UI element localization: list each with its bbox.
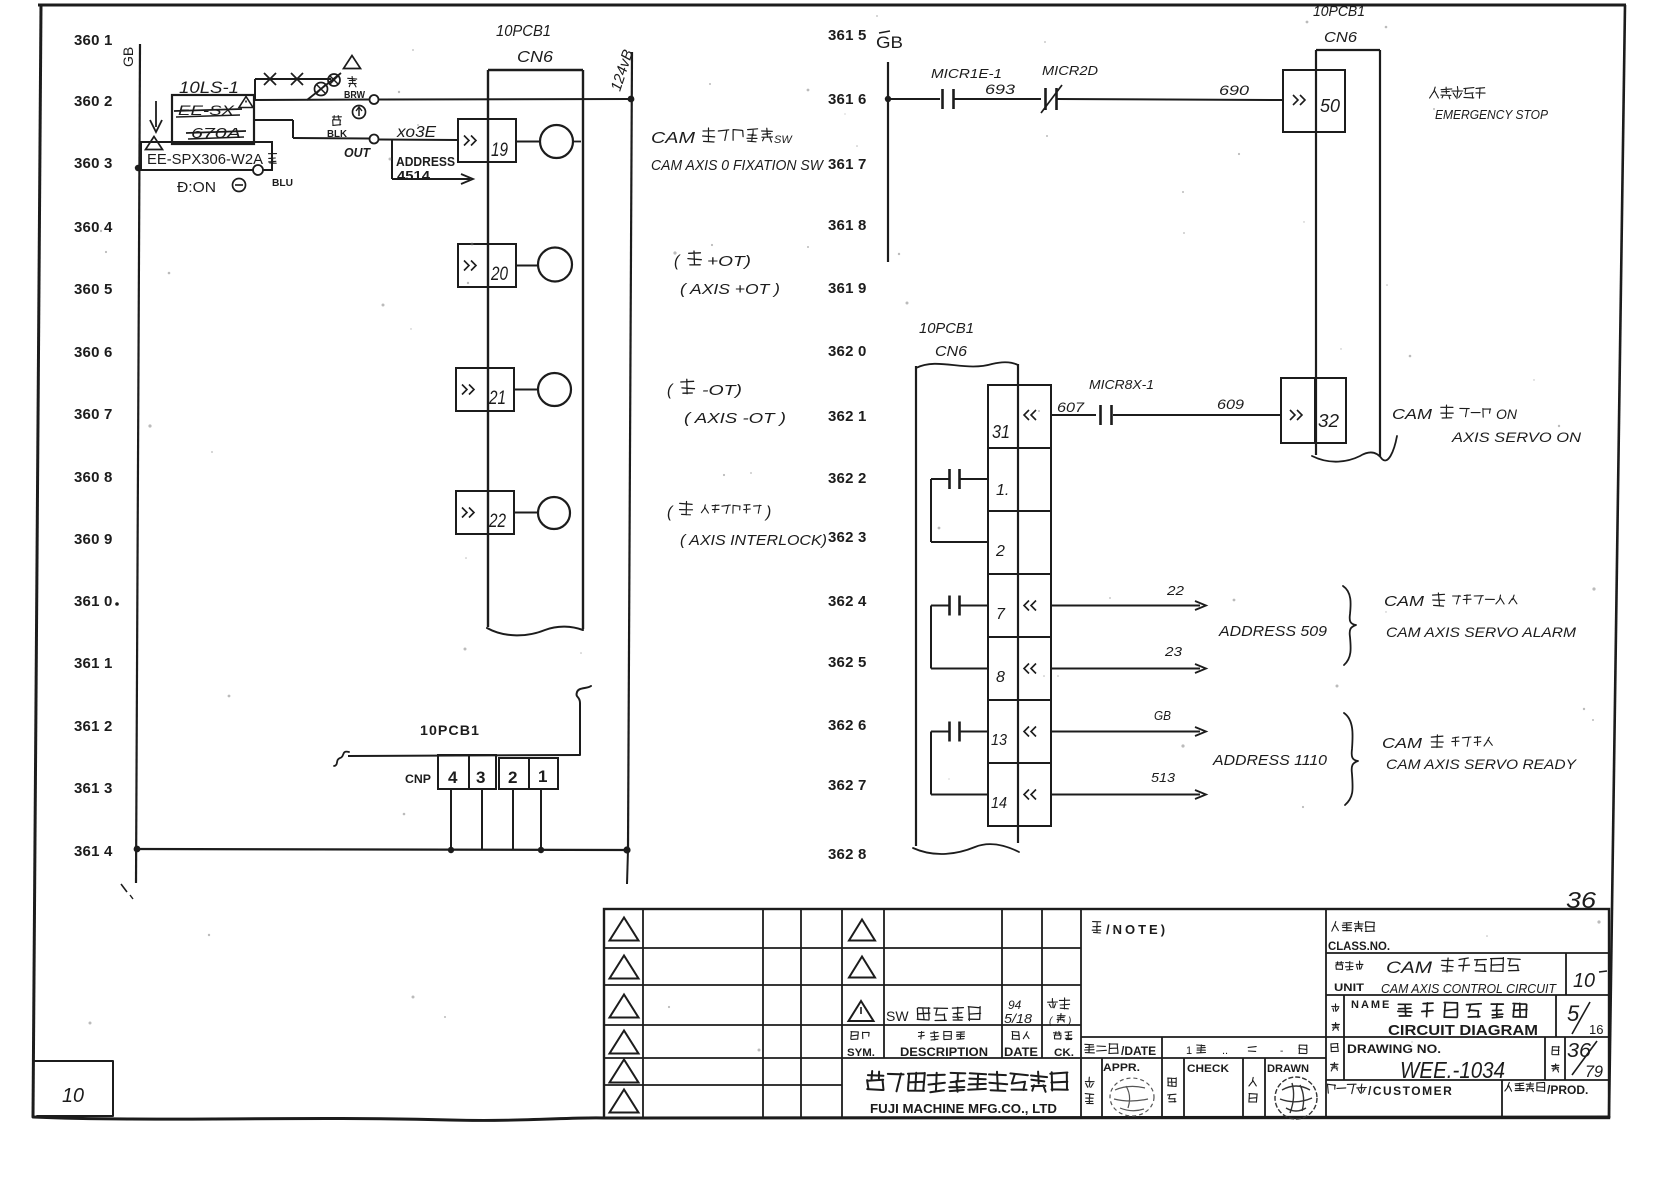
svg-text:CAM: CAM [1386, 958, 1433, 977]
svg-text:360: 360 [74, 32, 100, 49]
sheet number 5/16 [1567, 1001, 1603, 1037]
pin stack divider 3 [988, 573, 1051, 575]
date row header (jp)/DATE [1085, 1044, 1157, 1059]
svg-text:WEE.-1034: WEE.-1034 [1400, 1057, 1505, 1083]
wire pin21 to lamp [514, 389, 538, 391]
svg-text:( AXIS INTERLOCK): ( AXIS INTERLOCK) [680, 532, 827, 549]
svg-text:GB: GB [120, 47, 136, 67]
svg-text:NAME: NAME [1351, 999, 1391, 1011]
annotation axis -OT (jp) [667, 379, 742, 399]
svg-text:2: 2 [995, 543, 1005, 560]
svg-text:GB: GB [1154, 708, 1171, 723]
svg-text:2: 2 [104, 718, 112, 735]
svg-text:360: 360 [74, 219, 100, 236]
sheet number 10 [62, 1085, 84, 1107]
annotation ( AXIS INTERLOCK ) [680, 532, 827, 549]
pin 22 box [456, 491, 514, 534]
wire pin22 to lamp [514, 512, 537, 514]
wire 690 [1057, 99, 1283, 100]
svg-text:10PCB1: 10PCB1 [496, 23, 551, 40]
left GB bus wire [121, 44, 140, 899]
svg-text:/CUSTOMER: /CUSTOMER [1368, 1084, 1453, 1098]
annotation CAM axis servo ON (jp) [1392, 405, 1518, 423]
svg-text:6: 6 [858, 91, 866, 108]
svg-text:OUT: OUT [344, 145, 371, 160]
svg-text:UNIT: UNIT [1334, 982, 1364, 994]
pin 7 number [996, 606, 1006, 623]
CNP pin 1 box [529, 758, 558, 789]
stamp label APPR. [1103, 1062, 1140, 1074]
pin 20 box [458, 244, 516, 287]
prod header (jp)/PROD. [1505, 1082, 1588, 1097]
connector CN6 mid body [916, 362, 1018, 846]
svg-text:-: - [1280, 1046, 1283, 1057]
svg-text:CAM: CAM [651, 130, 696, 147]
svg-text:CAM: CAM [1392, 406, 1433, 423]
svg-text:AXIS SERVO ON: AXIS SERVO ON [1451, 429, 1582, 445]
warning triangle above contact [344, 56, 361, 69]
title block revision table grid [604, 909, 1609, 1118]
svg-text:31: 31 [992, 422, 1010, 442]
svg-text:1.: 1. [996, 482, 1009, 499]
contact pair pins 13-14 [931, 722, 988, 795]
svg-text:( AXIS -OT ): ( AXIS -OT ) [684, 410, 786, 427]
svg-text:ADDRESS 509: ADDRESS 509 [1218, 623, 1328, 640]
sheet number box [33, 1061, 113, 1116]
wire color label blue [269, 154, 294, 189]
svg-text:670A: 670A [191, 125, 241, 142]
svg-text:5: 5 [858, 654, 866, 671]
page cell header (jp) [1552, 1046, 1560, 1072]
svg-text:6: 6 [104, 344, 112, 361]
connector CN6 wavy bottom (right PCB) [1312, 436, 1397, 462]
wire 693 [954, 98, 1041, 100]
svg-text:BLU: BLU [272, 178, 293, 189]
svg-text:362: 362 [828, 593, 854, 610]
svg-text:9: 9 [858, 280, 866, 297]
svg-text:362: 362 [828, 529, 854, 546]
drawing no cell header (jp) [1331, 1044, 1339, 1072]
svg-text:CAM: CAM [1382, 735, 1423, 752]
svg-text:22: 22 [488, 511, 506, 532]
address branch wire 4514 [392, 140, 473, 184]
svg-text:CIRCUIT DIAGRAM: CIRCUIT DIAGRAM [1388, 1022, 1538, 1039]
svg-text:2: 2 [508, 768, 517, 787]
crossed-out text EE-SX [174, 102, 242, 118]
svg-text:361: 361 [74, 843, 100, 860]
pin 22 number [488, 511, 506, 532]
svg-text:609: 609 [1217, 396, 1244, 412]
svg-text:360: 360 [74, 93, 100, 110]
annotation AXIS SERVO ON [1451, 429, 1582, 445]
page left border [33, 5, 41, 1117]
pin 19 arrows [464, 136, 476, 146]
contact diagonal stroke [307, 73, 341, 100]
sensor model text EE-SPX306-W2A [147, 151, 263, 168]
pin 8 arrows [1024, 664, 1036, 674]
connector label 10PCB1 CN6 (mid) [919, 320, 974, 360]
svg-text:361: 361 [828, 217, 854, 234]
connector CN6 body [488, 70, 583, 629]
svg-text:SW: SW [886, 1008, 909, 1024]
connector label 10PCB1 (bottom) [420, 722, 480, 738]
page number 36 (handwritten) [1566, 887, 1596, 913]
svg-text:ON: ON [1496, 406, 1518, 422]
svg-text:MICR8X-1: MICR8X-1 [1089, 377, 1154, 392]
wire 22 out [1051, 601, 1206, 610]
circle-plus symbol [353, 106, 366, 119]
revision date 94 5/18 [1004, 998, 1033, 1026]
pin 21 number [488, 388, 506, 409]
stamp cell approval (jp) [1085, 1077, 1094, 1103]
pin 32 number [1318, 411, 1339, 431]
junction dot GB row 3616 [885, 96, 891, 102]
svg-text:EMERGENCY STOP: EMERGENCY STOP [1435, 107, 1548, 122]
svg-text:3: 3 [104, 155, 112, 172]
crossed circle terminal lower [315, 83, 328, 96]
pin 50 arrows [1293, 95, 1305, 105]
relay contact MICR2D label [1042, 63, 1098, 78]
svg-text:10: 10 [1573, 970, 1595, 992]
CNP pin 4 box [438, 755, 469, 789]
svg-text:22: 22 [1166, 583, 1185, 598]
break squiggle left of CNP [334, 752, 349, 766]
power bus 124vB wire [628, 52, 632, 849]
pin 14 number [991, 795, 1007, 812]
wire CNP pin3 down [481, 789, 483, 850]
svg-text:0: 0 [858, 343, 866, 360]
company name Fuji Machine (jp) [867, 1071, 1068, 1092]
svg-text:690: 690 [1219, 82, 1249, 98]
svg-text:361: 361 [74, 780, 100, 797]
CNP pin 2 box [499, 758, 529, 789]
svg-text:21: 21 [488, 388, 506, 409]
name cell header (jp) [1332, 1004, 1340, 1031]
svg-text:DATE: DATE [1004, 1045, 1038, 1059]
junction dot bus 124vB [623, 846, 630, 853]
svg-text:4: 4 [448, 768, 458, 787]
svg-text:DESCRIPTION: DESCRIPTION [900, 1045, 988, 1059]
svg-text:/NOTE): /NOTE) [1106, 922, 1168, 937]
wire color label black [327, 116, 348, 140]
header cell SYM [847, 1032, 875, 1059]
svg-text:360: 360 [74, 155, 100, 172]
svg-text:1: 1 [538, 767, 547, 786]
revision signer Yamamoto [1048, 998, 1072, 1027]
svg-text:360: 360 [74, 406, 100, 423]
svg-text:( AXIS +OT ): ( AXIS +OT ) [680, 281, 780, 298]
stamp cell check (jp) [1168, 1078, 1177, 1102]
pin stack divider 6 [988, 762, 1051, 764]
lamp at pin 19 [540, 125, 581, 158]
svg-text:1: 1 [104, 32, 112, 49]
title block right grid [1326, 953, 1609, 1118]
label D:ON [177, 179, 216, 196]
bottom bus wire 3614 [137, 849, 628, 850]
page number 36/79 [1567, 1040, 1604, 1081]
svg-text:9: 9 [104, 531, 112, 548]
contact pair pins 1-2 [931, 469, 988, 542]
stamp label DRAWN [1267, 1063, 1309, 1075]
svg-text:CAM AXIS SERVO READY: CAM AXIS SERVO READY [1386, 756, 1578, 772]
company name FUJI MACHINE MFG.CO., LTD [870, 1101, 1057, 1116]
svg-text:1: 1 [1186, 1045, 1192, 1057]
svg-text:10: 10 [62, 1085, 84, 1107]
annotation axis interlock (jp) [667, 502, 771, 522]
svg-text:-OT): -OT) [702, 382, 742, 399]
net GB label (left) [120, 47, 136, 67]
wire number 693 [985, 81, 1015, 97]
note header (jp)/NOTE [1092, 922, 1168, 937]
svg-text:361: 361 [74, 593, 100, 610]
label ADDRESS 1110 [1212, 752, 1328, 769]
svg-text:CN6: CN6 [517, 49, 553, 66]
svg-text:19: 19 [491, 140, 508, 161]
connector label CN6 (top) [517, 49, 553, 66]
page top border [38, 4, 1626, 7]
right GB bus wire [887, 62, 889, 262]
contact MICR8X-1 [1101, 405, 1112, 425]
svg-text:10PCB1: 10PCB1 [919, 320, 974, 337]
svg-text:6: 6 [858, 717, 866, 734]
contact pair pins 7-8 [931, 596, 988, 669]
pin 20 arrows [464, 261, 476, 271]
svg-text:32: 32 [1318, 411, 1339, 431]
wire number GB [1154, 708, 1171, 723]
title block middle grid [1081, 909, 1326, 1118]
junction dot bus pin4 [448, 847, 454, 853]
svg-text:CHECK: CHECK [1187, 1063, 1229, 1075]
pin stack divider 2 [988, 510, 1051, 512]
sensor box EE-SPX306-W2A [141, 142, 272, 170]
svg-text:DRAWN: DRAWN [1267, 1063, 1309, 1075]
connector CN6 wavy bottom [487, 627, 583, 636]
svg-text:CAM AXIS 0 FIXATION SW: CAM AXIS 0 FIXATION SW [651, 157, 825, 174]
stamp label CHECK [1187, 1063, 1229, 1075]
lamp at pin 21 [538, 373, 571, 406]
svg-text:362: 362 [828, 408, 854, 425]
contact MICR2D (NC) [1041, 85, 1062, 113]
pin 32 box [1281, 378, 1346, 443]
pin 31 number [992, 422, 1010, 442]
lamp at pin 20 [538, 248, 572, 282]
wire number 607 [1057, 399, 1085, 415]
label ADDRESS 509 [1218, 623, 1328, 640]
svg-text:362: 362 [828, 343, 854, 360]
svg-text:CN6: CN6 [1324, 29, 1358, 46]
unit header (jp) [1336, 961, 1363, 970]
crossed-out text 670A [186, 125, 246, 142]
svg-text:SYM.: SYM. [847, 1047, 875, 1059]
drawing no header DRAWING NO. [1347, 1042, 1441, 1056]
terminal circle BLU [253, 165, 263, 175]
annotation CAM AXIS SERVO READY [1386, 756, 1578, 772]
scan speckles [89, 15, 1601, 1051]
CNP top edge wire [348, 755, 580, 756]
connector CNP label [405, 772, 431, 786]
wire 23 out [1051, 664, 1206, 673]
svg-text:/PROD.: /PROD. [1547, 1083, 1588, 1097]
CNP pin 3 box [469, 755, 496, 789]
revision warning triangle row 3 [849, 1001, 874, 1021]
down arrow to switch [150, 101, 162, 132]
svg-text:8: 8 [858, 217, 866, 234]
svg-text:CN6: CN6 [935, 343, 968, 360]
pin 21 arrows [462, 385, 474, 395]
svg-text:7: 7 [858, 156, 866, 173]
revision triangles column 2 [849, 920, 875, 978]
svg-text:362: 362 [828, 846, 854, 863]
svg-text:3: 3 [104, 780, 112, 797]
svg-text:7: 7 [104, 406, 112, 423]
svg-text:4: 4 [104, 843, 113, 860]
svg-text:3: 3 [858, 529, 866, 546]
svg-text:5/18: 5/18 [1004, 1011, 1033, 1026]
junction dot at GB bus row 3603 [135, 165, 141, 171]
label OUT [344, 145, 371, 160]
header cell DATE [1004, 1032, 1038, 1060]
drawing number WEE-1034 [1400, 1057, 1505, 1083]
pin 22 arrows [462, 508, 474, 518]
svg-text:FUJI MACHINE MFG.CO., LTD: FUJI MACHINE MFG.CO., LTD [870, 1101, 1057, 1116]
svg-text:): ) [1067, 1016, 1071, 1027]
wire CNP pin4 down [450, 789, 452, 850]
annotation CAM axis servo alarm (jp) [1384, 593, 1517, 610]
annotation CAM axis servo ready (jp) [1382, 735, 1492, 752]
right wire row labels 3615-3628 [828, 27, 867, 863]
connector label 10PCB1 (top) [496, 23, 551, 40]
wire number 23 [1164, 644, 1183, 659]
svg-text:361: 361 [74, 655, 100, 672]
drawn stamp scribble [1275, 1077, 1317, 1119]
approval stamp scribble [1110, 1078, 1154, 1116]
svg-text:Đ:ON: Đ:ON [177, 179, 216, 196]
svg-text:5: 5 [858, 27, 866, 44]
svg-text:361: 361 [74, 718, 100, 735]
revision triangles column 1 [610, 918, 639, 1113]
wire with break marks [255, 73, 331, 99]
svg-text:361: 361 [828, 91, 854, 108]
connector CN6 mid wavy bottom [913, 844, 1019, 854]
pin stack divider 4 [988, 636, 1051, 638]
svg-text:16: 16 [1589, 1022, 1603, 1037]
svg-text:8: 8 [858, 846, 866, 863]
terminal circle OUT [370, 135, 379, 144]
svg-text:607: 607 [1057, 399, 1085, 415]
svg-text:CLASS.NO.: CLASS.NO. [1328, 939, 1390, 953]
label ADDRESS 4514 [396, 154, 455, 183]
svg-text:10PCB1: 10PCB1 [420, 722, 480, 738]
junction dot bus pin1 [538, 847, 544, 853]
class no header (jp) [1332, 921, 1375, 931]
pin 32 arrows [1290, 410, 1302, 420]
date row blank year-month-day [1186, 1045, 1307, 1057]
svg-text:362: 362 [828, 654, 854, 671]
svg-text:50: 50 [1320, 96, 1340, 116]
class no header CLASS.NO. [1328, 939, 1390, 953]
svg-text:+OT): +OT) [707, 253, 751, 270]
wire OUT from sensor [254, 120, 369, 139]
revision text SW model fix [886, 1007, 981, 1024]
stamp cell drawn (jp) [1249, 1077, 1257, 1102]
svg-text:CK.: CK. [1054, 1047, 1074, 1059]
wire 609 [1113, 414, 1281, 416]
svg-text:14: 14 [991, 795, 1007, 812]
wire 607 [1051, 414, 1096, 416]
svg-text:7: 7 [996, 606, 1006, 623]
lamp at pin 22 [538, 497, 570, 529]
svg-text:7: 7 [858, 777, 866, 794]
pin 1 number [996, 482, 1009, 499]
svg-text:SW: SW [774, 134, 793, 146]
svg-text:20: 20 [490, 264, 508, 285]
pin 20 number [490, 264, 508, 285]
svg-text:362: 362 [828, 470, 854, 487]
relay coil MICR8X-1 label [1089, 377, 1154, 392]
wire BRW to 124vB bus [254, 99, 630, 100]
junction dot bus left [134, 846, 141, 853]
svg-text:EE-SPX306-W2A: EE-SPX306-W2A [147, 151, 263, 168]
pin stack divider 5 [988, 699, 1051, 701]
terminal circle BRW [370, 95, 379, 104]
wire CNP pin1 down [540, 789, 542, 850]
annotation axis +OT (jp) [674, 251, 751, 270]
pin stack outer box [988, 385, 1051, 826]
svg-text:4: 4 [104, 219, 113, 236]
svg-text:8: 8 [996, 669, 1005, 686]
relay contact MICR1E-1 label [931, 66, 1002, 81]
svg-text:693: 693 [985, 81, 1015, 97]
svg-text:APPR.: APPR. [1103, 1062, 1140, 1074]
annotation emergency stop (jp) [1430, 87, 1486, 99]
limit switch body box [172, 95, 254, 144]
contact MICR1E-1 [943, 89, 954, 109]
svg-text:361: 361 [828, 27, 854, 44]
wire number 609 [1217, 396, 1244, 412]
svg-text:0: 0 [104, 593, 112, 610]
svg-text:1: 1 [858, 408, 866, 425]
svg-text:5: 5 [104, 281, 112, 298]
svg-text:362: 362 [828, 717, 854, 734]
pin 2 number [995, 543, 1005, 560]
wire row 3616 left segment [888, 98, 940, 100]
svg-text:ADDRESS 1110: ADDRESS 1110 [1212, 752, 1328, 769]
squiggle hook above CNP [577, 686, 591, 755]
svg-text:79: 79 [1585, 1062, 1604, 1081]
revision triangle on switch box [239, 97, 253, 108]
svg-text:361: 361 [828, 156, 854, 173]
svg-text:362: 362 [828, 777, 854, 794]
customer header (jp)/CUSTOMER [1328, 1084, 1454, 1098]
net GB label (right) [876, 31, 903, 52]
wire GB out [1051, 727, 1206, 736]
svg-text:36: 36 [1567, 1040, 1592, 1062]
annotation CAM AXIS SERVO ALARM [1386, 624, 1576, 640]
connector label 10PCB1 CN6 (top right) [1313, 3, 1365, 46]
svg-text:MICR1E-1: MICR1E-1 [931, 66, 1002, 81]
svg-text:CAM AXIS SERVO ALARM: CAM AXIS SERVO ALARM [1386, 624, 1576, 640]
wire CNP pin2 down [512, 789, 514, 850]
wire color label brown [344, 77, 365, 101]
svg-text:..: .. [1222, 1045, 1228, 1057]
svg-text:360: 360 [74, 469, 100, 486]
brace servo alarm [1343, 586, 1356, 665]
svg-text:GB: GB [876, 33, 903, 52]
unit header UNIT [1334, 982, 1364, 994]
svg-text:1: 1 [104, 655, 112, 672]
svg-text:4514: 4514 [397, 168, 431, 183]
svg-text:): ) [764, 504, 771, 521]
